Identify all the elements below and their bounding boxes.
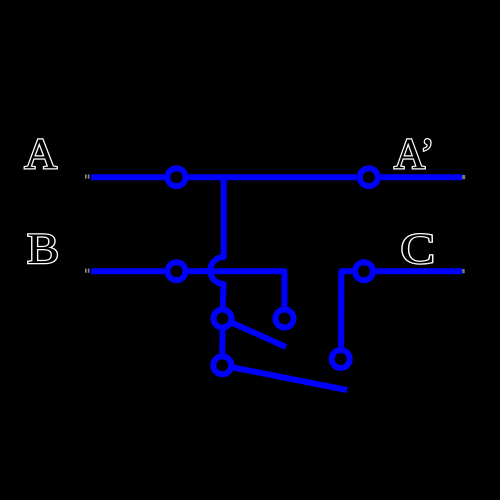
terminal marker right C — [462, 269, 465, 273]
wire vertical drop from A line with hop over B line — [210, 177, 224, 307]
wire C right segment — [376, 268, 462, 274]
contact circle on A line (right) — [360, 168, 378, 186]
wire link between pivots — [219, 329, 225, 354]
wire A left segment — [91, 174, 165, 180]
contact circle on C line — [355, 262, 373, 280]
svg-text:A’: A’ — [394, 131, 435, 178]
wire A middle segment — [189, 174, 357, 180]
contact circle B end — [276, 310, 294, 328]
terminal marker left B — [85, 269, 89, 273]
terminal marker left A — [85, 174, 89, 178]
wire C stub to bend and down — [341, 271, 352, 347]
switch pivot circle 1 — [214, 310, 232, 328]
wire B left segment — [91, 268, 165, 274]
switch arm 1 — [233, 323, 287, 347]
wire B segment to bend and down to contact — [189, 271, 285, 307]
terminal marker right A' — [462, 175, 465, 179]
contact circle on A line (left) — [168, 168, 186, 186]
svg-text:C: C — [401, 226, 435, 273]
svg-text:A: A — [24, 130, 57, 178]
wire A right segment — [381, 174, 462, 180]
contact circle on B line — [168, 262, 186, 280]
svg-text:B: B — [27, 224, 59, 272]
contact circle C end — [332, 350, 350, 368]
switch pivot circle 2 — [213, 356, 231, 374]
switch arm 2 — [233, 368, 347, 391]
